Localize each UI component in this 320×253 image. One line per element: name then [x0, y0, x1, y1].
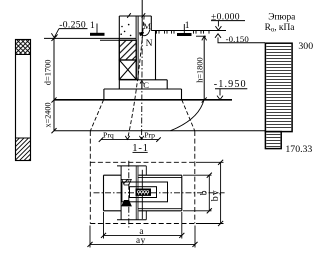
dim ay extension left [89, 226, 91, 248]
svg-text:-0.250: -0.250 [59, 19, 86, 30]
svg-text:d=1700: d=1700 [43, 60, 52, 86]
pressure shelf tick right [156, 137, 161, 142]
h dim arrow top [202, 36, 207, 40]
column axis dash-dot [141, 37, 144, 139]
plan step edge top [138, 176, 182, 178]
footing slab left edge [103, 89, 105, 99]
floor line right [151, 30, 226, 32]
dim by extension bottom [196, 223, 224, 225]
h dimension line [203, 36, 205, 100]
left dim tick bottom [51, 128, 56, 133]
dim a ticks [101, 233, 106, 238]
force N arrowhead [140, 32, 144, 37]
svg-text:b: b [199, 190, 210, 195]
footing step right edge [166, 80, 168, 89]
plan column cap bottom [117, 219, 146, 221]
plan stub top right [145, 166, 147, 175]
dim ay line [90, 243, 195, 245]
strip crosshatched cap [16, 40, 31, 55]
pressure shelf tick left [99, 137, 104, 142]
dim b extension top [183, 174, 212, 176]
plan weld mark top [122, 179, 132, 185]
section mark 1 left stem [96, 24, 98, 34]
base line [54, 99, 232, 101]
svg-text:x=2400: x=2400 [44, 102, 53, 127]
plan outer detail rect [122, 182, 168, 202]
plan column cap top [117, 165, 146, 167]
axis tick column [142, 13, 146, 18]
plan stub bottom right [145, 211, 147, 220]
column top line [119, 15, 151, 17]
svg-text:ay: ay [136, 235, 146, 245]
axis tick wall [127, 13, 131, 18]
level -1.950 shelf [215, 88, 247, 90]
footing step top [119, 79, 167, 81]
soil column strip [16, 40, 31, 161]
svg-text:by: by [210, 189, 221, 201]
epure wide bar [265, 43, 292, 131]
svg-text:Prq: Prq [103, 131, 114, 140]
radius arc [171, 100, 205, 131]
level -0.150 shelf [218, 42, 266, 44]
left dimension line [53, 38, 55, 131]
spread line left dashed [90, 100, 103, 131]
plan slab bottom edge [104, 210, 122, 212]
section mark 1 right stem [183, 24, 185, 33]
plan branch left edge [120, 166, 122, 220]
strip hatched bottom [16, 138, 31, 161]
dim b line [208, 175, 210, 211]
plan outer dashed right [194, 131, 196, 224]
dim a line [104, 234, 182, 236]
plan outer dashed bottom [90, 223, 195, 225]
plan weld mark bottom [122, 200, 132, 206]
left dim tick top [51, 36, 56, 41]
dim by ticks [218, 160, 223, 165]
dim b extension bottom [183, 210, 212, 212]
svg-text:300: 300 [298, 41, 313, 52]
plan hatched core [136, 189, 151, 195]
column right edge upper [150, 16, 152, 31]
dim a extension left [103, 212, 105, 239]
section mark 1 left bar [90, 33, 105, 36]
dim a extension right [181, 212, 183, 239]
svg-text:-1.950: -1.950 [214, 79, 247, 90]
section title underline [133, 151, 148, 153]
pedestal right edge [155, 31, 157, 81]
plan anchor line [141, 170, 143, 219]
footing slab right edge [181, 89, 183, 99]
plan slab top edge [104, 174, 122, 176]
plan branch right edge double [135, 166, 137, 220]
plan step edge bottom [138, 208, 182, 210]
footing slab top [104, 88, 182, 90]
level -0.150 arrow [217, 38, 219, 43]
svg-text:h=1800: h=1800 [195, 57, 204, 82]
resultant dashed line [128, 16, 145, 140]
svg-text:1: 1 [90, 21, 95, 31]
resultant bottom arrow [125, 136, 129, 140]
level ±0.000 arrow [217, 21, 219, 27]
concrete dots [121, 26, 123, 28]
point C arrow [141, 82, 143, 89]
plan slab right edge [181, 175, 183, 211]
h dim extension [196, 35, 206, 37]
moment arc [140, 29, 150, 35]
svg-text:C: C [143, 80, 149, 90]
svg-text:Ro, кПа: Ro, кПа [265, 23, 296, 34]
plan slab left edge [103, 175, 105, 211]
level ±0.000 shelf [211, 20, 245, 22]
plan vertical centerline [128, 161, 130, 228]
level -1.950 arrow [219, 89, 221, 96]
plan inner detail rect [130, 187, 157, 198]
section mark 1 right bar [177, 33, 192, 36]
lower level line [54, 130, 265, 132]
plan outer dashed top [90, 161, 195, 163]
dim ay extension right [194, 226, 196, 248]
level mark -0.250 arrow [54, 29, 59, 38]
wall cross box [119, 60, 136, 80]
dim by line [220, 162, 222, 223]
level mark -0.250 shelf [59, 28, 88, 30]
wall left edge [118, 16, 120, 89]
dim ay ticks [87, 242, 92, 247]
plan outer dashed left [89, 131, 91, 224]
left dim tick middle [51, 97, 56, 102]
ground ticks right [156, 31, 158, 34]
epure narrow bar [265, 132, 281, 149]
dim b ticks [207, 173, 212, 178]
force N line [141, 0, 143, 33]
svg-text:Prp: Prp [144, 131, 155, 140]
wall right edge double [135, 16, 137, 80]
svg-text:Эпюра: Эпюра [268, 12, 296, 22]
left ground line upper [44, 37, 136, 39]
svg-text:170.33: 170.33 [285, 144, 312, 155]
svg-text:1: 1 [185, 21, 190, 31]
left ground line lower [100, 39, 136, 41]
h dim tick bottom [202, 97, 207, 102]
axis bottom arrow [139, 136, 143, 140]
dim by extension top [196, 161, 224, 163]
spread line right dashed [182, 100, 195, 131]
plan horizontal centerline [94, 192, 225, 194]
pressure shelf line [101, 139, 159, 141]
wall hatch box [119, 40, 136, 60]
svg-text:N: N [146, 39, 153, 49]
